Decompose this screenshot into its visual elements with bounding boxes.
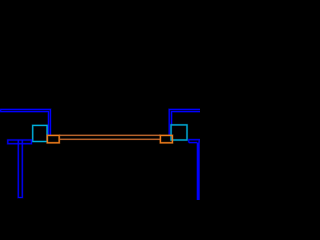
right glazing block (cyan square): [171, 125, 187, 140]
left sash profile (orange rectangle): [47, 135, 59, 142]
right head frame channel (blue U-profile): [169, 109, 200, 135]
right sash profile (orange rectangle): [160, 135, 172, 142]
left mullion T-bar (blue): [8, 140, 32, 144]
right jamb stem (blue solid band to bottom edge): [197, 143, 200, 200]
glazing panel double line (orange): [59, 135, 160, 139]
left head frame channel (blue U-profile): [1, 109, 51, 135]
right jamb channel (blue U-profile): [189, 140, 200, 143]
left mullion stem (blue): [18, 140, 22, 197]
left glazing block (cyan square): [33, 125, 47, 141]
